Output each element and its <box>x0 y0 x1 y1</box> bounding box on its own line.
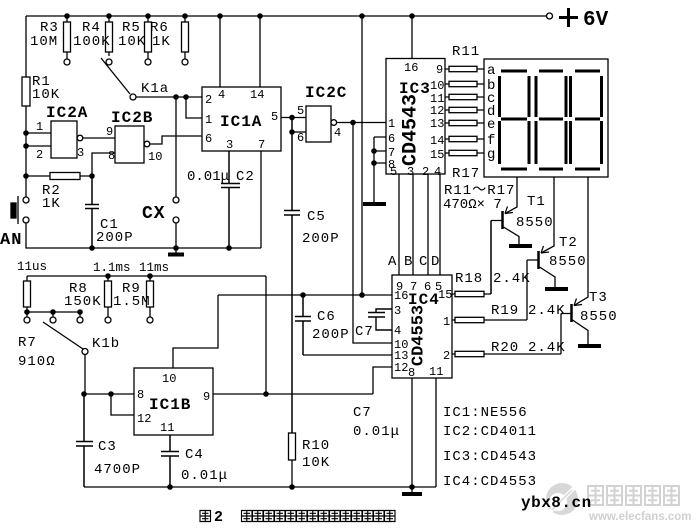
watermark logo <box>546 483 578 515</box>
svg-text:T2: T2 <box>559 235 578 251</box>
svg-text:6: 6 <box>297 131 304 145</box>
wire IC2B pin8 to R2 node <box>92 153 115 176</box>
svg-text:1: 1 <box>443 315 450 329</box>
bottom ground rail <box>84 486 436 488</box>
resistor R6 <box>184 16 186 59</box>
capacitor C5 <box>284 118 300 434</box>
svg-text:www.elecfans.com: www.elecfans.com <box>588 511 691 523</box>
svg-text:1: 1 <box>388 117 395 131</box>
wire K1b common down <box>84 355 86 395</box>
svg-text:R11: R11 <box>452 44 480 60</box>
svg-text:4: 4 <box>218 88 225 102</box>
svg-text:5: 5 <box>390 165 397 179</box>
svg-text:IC1B: IC1B <box>149 396 191 414</box>
svg-text:470Ω× 7: 470Ω× 7 <box>443 197 502 213</box>
svg-text:0.01μ: 0.01μ <box>187 169 229 185</box>
svg-text:IC2C: IC2C <box>305 84 347 102</box>
svg-text:B: B <box>404 254 413 270</box>
wire CX branch <box>175 97 177 248</box>
svg-text:2: 2 <box>214 509 223 526</box>
wire K1a to IC1A <box>136 97 202 118</box>
resistor R1 <box>22 77 30 106</box>
svg-text:2.4K: 2.4K <box>493 271 531 287</box>
svg-text:200P: 200P <box>302 231 340 247</box>
wire IC3 pin16 to rail <box>411 16 413 59</box>
transistor T2 <box>537 251 540 269</box>
svg-text:200P: 200P <box>96 230 134 246</box>
svg-text:3: 3 <box>226 138 233 152</box>
watermark text <box>588 486 679 505</box>
svg-text:8550: 8550 <box>549 254 587 270</box>
svg-text:IC2A: IC2A <box>46 104 88 122</box>
wire top +6V rail <box>26 15 546 17</box>
switch K1a <box>101 58 130 94</box>
svg-text:C7: C7 <box>353 405 372 421</box>
svg-text:4: 4 <box>334 126 341 140</box>
svg-text:11ms: 11ms <box>139 261 169 275</box>
wire display to T1 <box>505 177 517 214</box>
svg-text:12: 12 <box>137 412 151 426</box>
svg-text:K1a: K1a <box>141 81 169 97</box>
svg-text:9: 9 <box>203 390 210 404</box>
wire IC4 pin8 pin11 down <box>412 378 436 487</box>
svg-text:IC2B: IC2B <box>111 109 153 127</box>
svg-text:11: 11 <box>160 421 174 435</box>
wire IC4 pin16 row <box>218 294 392 296</box>
svg-text:10K: 10K <box>118 34 146 50</box>
svg-text:IC2:CD4011: IC2:CD4011 <box>443 424 537 440</box>
node K1b contacts <box>24 317 30 323</box>
svg-text:8: 8 <box>408 366 415 380</box>
svg-text:11us: 11us <box>17 260 47 274</box>
svg-text:8: 8 <box>137 388 144 402</box>
resistor R10 <box>289 433 296 460</box>
svg-text:1: 1 <box>36 120 43 134</box>
resistor R4 <box>108 16 110 56</box>
capacitor C1 <box>85 176 99 248</box>
svg-text:ybx8.cn: ybx8.cn <box>521 494 592 512</box>
caption figure 2 (CJK substitute glyphs) <box>200 509 395 526</box>
resistor R3 <box>66 16 68 59</box>
display segments <box>500 71 602 169</box>
resistor R17 <box>445 152 484 154</box>
wire C6 to IC4 pin13 <box>303 354 392 356</box>
svg-text:3: 3 <box>77 146 84 160</box>
display box <box>484 59 608 177</box>
svg-text:10: 10 <box>430 79 444 93</box>
wire IC2C out to IC3 pin1 <box>337 122 386 124</box>
svg-text:R17: R17 <box>452 166 480 182</box>
wire IC2A out to IC2B in <box>83 137 115 139</box>
svg-text:3: 3 <box>407 165 414 179</box>
resistor R14 <box>445 109 484 111</box>
capacitor C2 <box>221 151 240 248</box>
svg-text:g: g <box>487 147 496 163</box>
svg-text:8550: 8550 <box>580 309 618 325</box>
svg-text:15: 15 <box>430 148 444 162</box>
svg-text:6: 6 <box>388 132 395 146</box>
svg-text:IC1A: IC1A <box>220 113 262 131</box>
op-amp gate IC2A <box>51 121 77 158</box>
wire IC2A inputs <box>26 133 51 146</box>
svg-text:IC4:CD4553: IC4:CD4553 <box>443 474 537 490</box>
gate IC2B <box>115 126 144 163</box>
wire K1b contacts row <box>27 312 80 317</box>
wire left rail <box>25 16 27 197</box>
svg-text:C5: C5 <box>307 209 326 225</box>
pushbutton AN <box>23 197 29 203</box>
svg-text:A: A <box>388 254 397 270</box>
svg-text:R20: R20 <box>491 340 519 356</box>
transistor T1 <box>501 211 504 229</box>
capacitor C7 <box>368 309 392 330</box>
svg-text:100K: 100K <box>73 34 111 50</box>
svg-text:C2: C2 <box>236 169 255 185</box>
wire IC1A pin5 to IC2C <box>281 117 306 119</box>
svg-text:15: 15 <box>438 288 452 302</box>
resistor R13 <box>445 96 484 98</box>
wire display to T2 <box>541 177 554 253</box>
IC1B box <box>134 368 213 435</box>
svg-text:12: 12 <box>430 104 444 118</box>
wire K1b to IC1B pin8 <box>84 393 134 395</box>
svg-text:C4: C4 <box>185 447 204 463</box>
capacitor C3 <box>76 394 93 487</box>
resistor R11 <box>445 68 484 70</box>
svg-text:1.5M: 1.5M <box>113 294 151 310</box>
svg-text:9: 9 <box>106 125 113 139</box>
wire IC3 pins 6 7 8 tied to ground <box>374 137 386 203</box>
svg-text:R7: R7 <box>18 335 37 351</box>
svg-text:0.01μ: 0.01μ <box>181 468 228 484</box>
svg-text:5: 5 <box>271 110 278 124</box>
wire +6V down to IC4 pin16 <box>361 16 363 295</box>
svg-text:6: 6 <box>205 132 212 146</box>
wire IC2C out down to IC4 pin10 <box>353 123 392 344</box>
capacitor C6 <box>295 295 311 355</box>
svg-text:0.01μ: 0.01μ <box>353 424 400 440</box>
svg-text:T1: T1 <box>527 194 546 210</box>
resistor R15 <box>445 122 484 124</box>
svg-text:3: 3 <box>394 304 401 318</box>
svg-text:R19: R19 <box>491 303 519 319</box>
resistor R16 <box>445 138 484 140</box>
transistor T3 <box>570 304 573 322</box>
gate IC2C <box>306 106 331 142</box>
svg-text:4700P: 4700P <box>94 462 141 478</box>
IC4 box <box>392 275 452 378</box>
svg-text:2: 2 <box>422 165 429 179</box>
svg-text:4: 4 <box>394 324 401 338</box>
svg-text:7: 7 <box>258 138 265 152</box>
ground under CX <box>175 248 177 253</box>
svg-text:16: 16 <box>394 289 408 303</box>
svg-text:C6: C6 <box>317 309 336 325</box>
IC1A box <box>202 87 281 151</box>
svg-text:AN: AN <box>0 231 22 250</box>
resistor R7 <box>26 276 28 312</box>
wire IC1A pin7 down <box>260 151 262 248</box>
switch K1b <box>43 322 83 349</box>
resistor R2 <box>26 175 92 177</box>
svg-text:1K: 1K <box>152 34 171 50</box>
node +6V terminal <box>547 13 553 19</box>
svg-text:2: 2 <box>205 93 212 107</box>
svg-text:2.4K: 2.4K <box>528 340 566 356</box>
wire IC2B out to IC1A pin6 <box>150 136 202 144</box>
timing rail <box>27 275 266 277</box>
svg-text:D: D <box>431 254 440 270</box>
svg-text:6V: 6V <box>583 9 609 32</box>
resistor R20 <box>452 353 561 355</box>
svg-text:12: 12 <box>394 361 408 375</box>
svg-text:8550: 8550 <box>516 215 554 231</box>
svg-text:IC3:CD4543: IC3:CD4543 <box>443 449 537 465</box>
wire timing rail drop <box>265 276 267 394</box>
wire IC2C pin6 <box>292 131 306 133</box>
svg-text:C: C <box>419 254 428 270</box>
svg-text:8: 8 <box>108 149 115 163</box>
svg-text:11: 11 <box>429 365 443 379</box>
IC3 box <box>386 59 445 175</box>
svg-text:150K: 150K <box>64 294 102 310</box>
wire IC1B pin10 path <box>173 295 218 368</box>
svg-text:4: 4 <box>434 165 441 179</box>
svg-text:R10: R10 <box>302 438 330 454</box>
wire IC4 pin12 down to IC1B pin9 row <box>373 367 392 394</box>
resistor R9 <box>149 276 151 317</box>
svg-text:CD4543: CD4543 <box>400 94 423 166</box>
svg-text:10: 10 <box>148 150 162 164</box>
svg-text:C7: C7 <box>355 324 374 340</box>
svg-text:1K: 1K <box>42 196 61 212</box>
svg-text:16: 16 <box>404 61 418 75</box>
wire IC1B pin12 tie <box>111 394 134 415</box>
svg-text:CD4553: CD4553 <box>410 305 429 366</box>
svg-text:10K: 10K <box>302 455 330 471</box>
svg-text:14: 14 <box>430 134 444 148</box>
svg-text:10: 10 <box>162 372 176 386</box>
svg-text:K1b: K1b <box>92 336 120 352</box>
resistor R5 <box>147 16 149 59</box>
wire AN down to bottom rail <box>26 223 261 248</box>
resistor R12 <box>445 83 484 85</box>
svg-text:5: 5 <box>297 104 304 118</box>
resistor R19 <box>452 319 527 321</box>
svg-text:2: 2 <box>36 148 43 162</box>
svg-text:C3: C3 <box>98 439 117 455</box>
svg-text:2.4K: 2.4K <box>528 303 566 319</box>
svg-text:2: 2 <box>443 349 450 363</box>
svg-text:T3: T3 <box>589 290 608 306</box>
svg-text:10M: 10M <box>30 34 58 50</box>
svg-text:200P: 200P <box>312 327 350 343</box>
svg-text:1: 1 <box>205 113 212 127</box>
svg-text:9: 9 <box>436 63 443 77</box>
capacitor C4 <box>161 435 179 487</box>
svg-text:R18: R18 <box>455 271 483 287</box>
ground bottom <box>411 487 413 492</box>
resistor R18 <box>452 221 491 295</box>
ground under IC3 <box>363 202 386 206</box>
svg-text:7: 7 <box>410 280 417 294</box>
wire display to T3 <box>574 177 588 306</box>
svg-text:IC1:NE556: IC1:NE556 <box>443 405 528 421</box>
svg-text:6: 6 <box>424 280 431 294</box>
svg-text:e: e <box>487 117 496 133</box>
wire IC1A pins 4 14 to rail <box>220 16 260 87</box>
svg-text:14: 14 <box>250 88 264 102</box>
resistor R8 <box>107 276 109 317</box>
svg-text:910Ω: 910Ω <box>18 354 56 370</box>
wire IC1B pin9 row <box>213 393 373 395</box>
svg-text:10K: 10K <box>32 87 60 103</box>
wire IC3 to IC4 buses A B C D <box>399 174 440 275</box>
svg-text:CX: CX <box>142 204 166 224</box>
svg-text:1.1ms: 1.1ms <box>93 261 131 275</box>
svg-text:13: 13 <box>430 117 444 131</box>
svg-text:a: a <box>487 63 496 79</box>
node CX terminals <box>173 197 179 203</box>
